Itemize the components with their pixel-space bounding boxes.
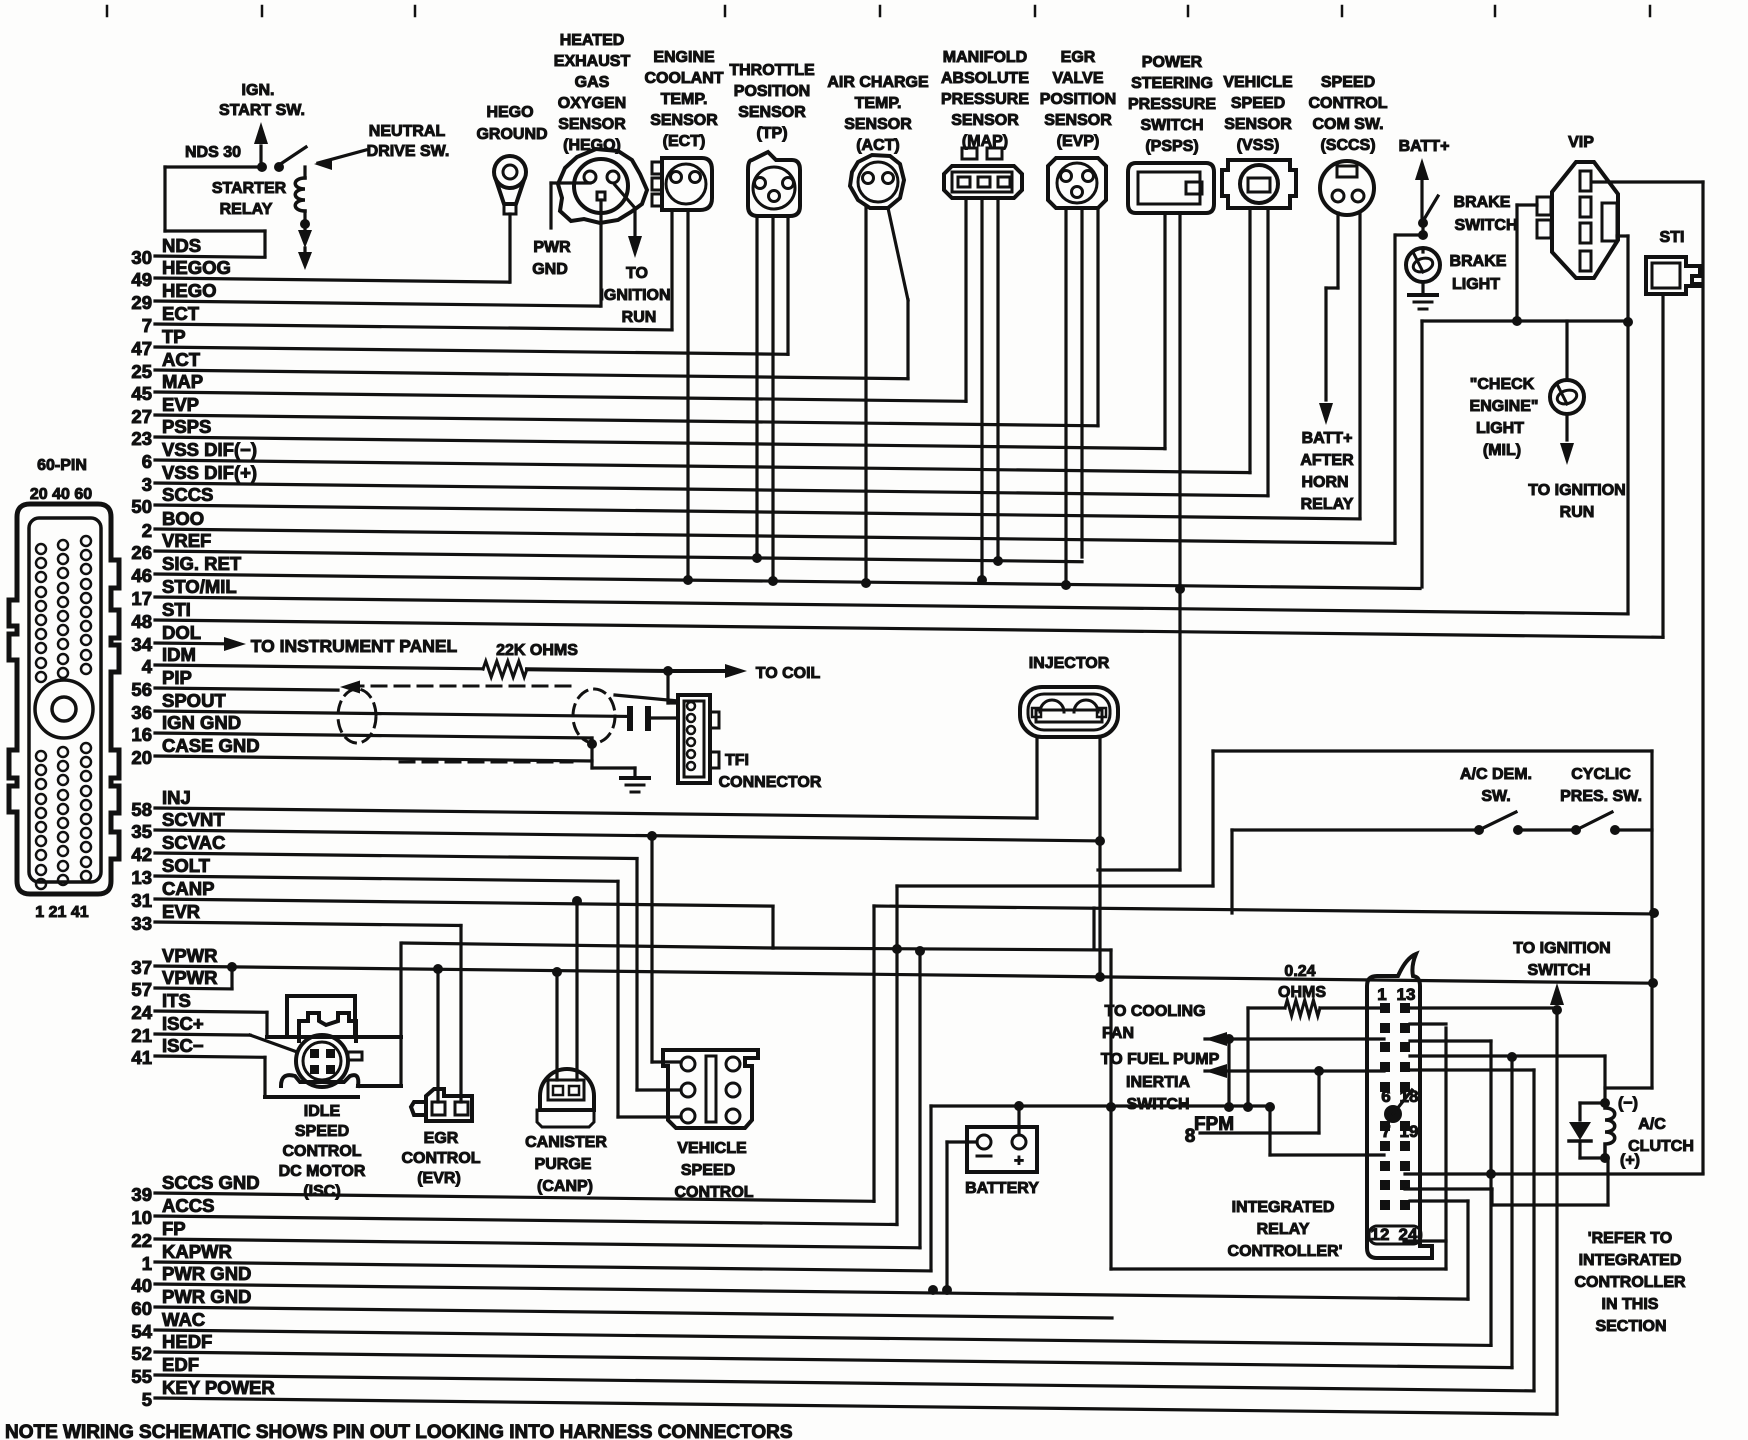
svg-text:SENSOR: SENSOR [1224, 116, 1292, 133]
svg-text:RELAY: RELAY [220, 201, 273, 218]
svg-text:PRESSURE: PRESSURE [1128, 96, 1216, 113]
svg-text:VIP: VIP [1568, 134, 1594, 151]
svg-text:DOL: DOL [162, 622, 201, 643]
svg-text:SOLT: SOLT [162, 855, 211, 876]
svg-text:23: 23 [131, 428, 152, 449]
svg-text:EVP: EVP [162, 394, 199, 415]
svg-text:CONTROL: CONTROL [282, 1143, 361, 1160]
svg-text:58: 58 [131, 799, 152, 820]
svg-text:OHMS: OHMS [1278, 984, 1326, 1001]
svg-text:CONTROLLER: CONTROLLER [1574, 1274, 1686, 1291]
svg-text:SW.: SW. [1481, 788, 1510, 805]
svg-text:40: 40 [131, 1275, 152, 1296]
svg-text:41: 41 [131, 1047, 152, 1068]
svg-text:VPWR: VPWR [162, 967, 218, 988]
svg-text:FAN: FAN [1102, 1025, 1134, 1042]
svg-text:ACT: ACT [162, 349, 201, 370]
svg-text:SENSOR: SENSOR [558, 116, 626, 133]
svg-text:+: + [1014, 1151, 1024, 1170]
svg-text:TO INSTRUMENT PANEL: TO INSTRUMENT PANEL [251, 636, 458, 656]
svg-text:CONTROL: CONTROL [401, 1150, 480, 1167]
svg-text:ECT: ECT [162, 303, 200, 324]
svg-text:RELAY: RELAY [1301, 496, 1354, 513]
svg-text:20 40 60: 20 40 60 [30, 486, 92, 503]
svg-text:CONTROLLER': CONTROLLER' [1228, 1243, 1343, 1260]
svg-text:37: 37 [131, 957, 152, 978]
svg-text:17: 17 [131, 588, 152, 609]
svg-text:HEATED: HEATED [560, 32, 625, 49]
svg-text:4: 4 [142, 656, 153, 677]
svg-text:EVR: EVR [162, 901, 200, 922]
svg-text:(PSPS): (PSPS) [1145, 138, 1198, 155]
svg-text:NDS 30: NDS 30 [185, 144, 241, 161]
svg-text:1: 1 [142, 1253, 152, 1274]
svg-text:STARTER: STARTER [212, 180, 287, 197]
svg-text:FP: FP [162, 1218, 186, 1239]
svg-text:39: 39 [131, 1184, 152, 1205]
svg-text:SPEED: SPEED [1321, 74, 1375, 91]
svg-text:INERTIA: INERTIA [1126, 1074, 1190, 1091]
svg-text:55: 55 [131, 1366, 152, 1387]
svg-text:"CHECK: "CHECK [1470, 376, 1535, 393]
svg-text:PIP: PIP [162, 667, 192, 688]
svg-text:HEDF: HEDF [162, 1331, 212, 1352]
svg-text:60-PIN: 60-PIN [37, 457, 87, 474]
svg-text:SENSOR: SENSOR [1044, 112, 1112, 129]
svg-text:ENGINE: ENGINE [653, 49, 715, 66]
svg-text:INTEGRATED: INTEGRATED [1232, 1199, 1335, 1216]
svg-text:24: 24 [131, 1002, 152, 1023]
svg-text:CONNECTOR: CONNECTOR [719, 774, 822, 791]
svg-text:27: 27 [131, 406, 152, 427]
svg-text:PWR: PWR [533, 239, 571, 256]
svg-text:DRIVE SW.: DRIVE SW. [367, 143, 450, 160]
svg-text:TO: TO [626, 265, 648, 282]
svg-text:(ISC): (ISC) [303, 1183, 340, 1200]
svg-text:7: 7 [142, 315, 152, 336]
svg-text:20: 20 [131, 747, 152, 768]
svg-text:10: 10 [131, 1207, 152, 1228]
svg-text:SIG. RET: SIG. RET [162, 553, 242, 574]
svg-text:A/C DEM.: A/C DEM. [1460, 766, 1532, 783]
svg-text:'REFER TO: 'REFER TO [1588, 1230, 1672, 1247]
svg-text:SPEED: SPEED [295, 1123, 349, 1140]
svg-text:VEHICLE: VEHICLE [1223, 74, 1293, 91]
svg-text:ISC+: ISC+ [162, 1013, 204, 1034]
svg-text:RELAY: RELAY [1257, 1221, 1310, 1238]
svg-text:OXYGEN: OXYGEN [558, 95, 626, 112]
svg-text:SENSOR: SENSOR [650, 112, 718, 129]
svg-text:25: 25 [131, 361, 152, 382]
svg-text:ITS: ITS [162, 990, 191, 1011]
svg-text:COOLANT: COOLANT [644, 70, 723, 87]
svg-text:VSS DIF(−): VSS DIF(−) [162, 439, 257, 460]
svg-text:INJECTOR: INJECTOR [1029, 655, 1110, 672]
svg-text:22: 22 [131, 1230, 152, 1251]
svg-text:TEMP.: TEMP. [661, 91, 708, 108]
svg-text:VREF: VREF [162, 530, 211, 551]
svg-text:EGR: EGR [1061, 49, 1096, 66]
svg-text:PRES. SW.: PRES. SW. [1560, 788, 1642, 805]
svg-text:CANISTER: CANISTER [525, 1134, 607, 1151]
svg-text:(EVR): (EVR) [417, 1170, 461, 1187]
svg-text:PWR GND: PWR GND [162, 1286, 251, 1307]
svg-text:48: 48 [131, 611, 152, 632]
svg-text:START SW.: START SW. [219, 102, 305, 119]
svg-text:56: 56 [131, 679, 152, 700]
svg-text:1 21 41: 1 21 41 [35, 904, 88, 921]
svg-text:GND: GND [532, 261, 568, 278]
svg-text:3: 3 [142, 474, 152, 495]
svg-text:34: 34 [131, 634, 152, 655]
svg-text:COM SW.: COM SW. [1312, 116, 1383, 133]
svg-text:SCVNT: SCVNT [162, 809, 225, 830]
svg-text:BATT+: BATT+ [1399, 138, 1450, 155]
svg-text:(SCCS): (SCCS) [1320, 137, 1375, 154]
svg-text:30: 30 [131, 247, 152, 268]
svg-text:IGNITION: IGNITION [599, 287, 670, 304]
svg-text:2: 2 [142, 520, 152, 541]
svg-text:6: 6 [1381, 1087, 1390, 1106]
svg-text:HEGOG: HEGOG [162, 257, 231, 278]
svg-text:57: 57 [131, 979, 152, 1000]
svg-text:TO IGNITION: TO IGNITION [1528, 482, 1625, 499]
svg-text:BATTERY: BATTERY [965, 1180, 1039, 1197]
svg-text:ENGINE": ENGINE" [1470, 398, 1539, 415]
svg-text:LIGHT: LIGHT [1476, 420, 1524, 437]
svg-text:TFI: TFI [725, 752, 749, 769]
svg-text:SENSOR: SENSOR [844, 116, 912, 133]
svg-text:GAS: GAS [575, 74, 610, 91]
svg-text:60: 60 [131, 1298, 152, 1319]
svg-text:SPEED: SPEED [681, 1162, 735, 1179]
svg-text:POSITION: POSITION [734, 83, 810, 100]
svg-text:KEY POWER: KEY POWER [162, 1377, 275, 1398]
svg-text:IDLE: IDLE [304, 1103, 341, 1120]
svg-text:ABSOLUTE: ABSOLUTE [941, 70, 1029, 87]
svg-text:INTEGRATED: INTEGRATED [1579, 1252, 1682, 1269]
svg-text:16: 16 [131, 724, 152, 745]
svg-text:IGN.: IGN. [242, 82, 275, 99]
svg-text:PWR GND: PWR GND [162, 1263, 251, 1284]
svg-text:TO FUEL PUMP: TO FUEL PUMP [1101, 1051, 1220, 1068]
svg-text:(TP): (TP) [756, 125, 787, 142]
svg-text:SWITCH: SWITCH [1454, 217, 1517, 234]
svg-text:AIR CHARGE: AIR CHARGE [827, 74, 929, 91]
svg-text:RUN: RUN [1560, 504, 1595, 521]
svg-text:IDM: IDM [162, 644, 196, 665]
svg-text:19: 19 [1400, 1122, 1419, 1141]
svg-text:49: 49 [131, 269, 152, 290]
svg-text:(EVP): (EVP) [1057, 133, 1100, 150]
svg-text:5: 5 [142, 1389, 152, 1410]
svg-text:TP: TP [162, 326, 186, 347]
svg-text:CLUTCH: CLUTCH [1628, 1138, 1694, 1155]
svg-text:HEGO: HEGO [486, 104, 533, 121]
svg-text:(CANP): (CANP) [537, 1178, 593, 1195]
svg-text:POWER: POWER [1142, 54, 1203, 71]
svg-text:24: 24 [1399, 1225, 1418, 1244]
svg-text:IN THIS: IN THIS [1602, 1296, 1659, 1313]
svg-text:PRESSURE: PRESSURE [941, 91, 1029, 108]
svg-text:EGR: EGR [424, 1130, 459, 1147]
svg-text:BRAKE: BRAKE [1450, 253, 1507, 270]
svg-text:SPEED: SPEED [1231, 95, 1285, 112]
svg-text:A/C: A/C [1638, 1116, 1666, 1133]
svg-text:47: 47 [131, 338, 152, 359]
svg-text:NOTE WIRING SCHEMATIC SHOWS P: NOTE WIRING SCHEMATIC SHOWS PIN OUT LOOK… [5, 1422, 793, 1440]
svg-text:BOO: BOO [162, 508, 204, 529]
svg-text:TO COIL: TO COIL [756, 665, 821, 682]
svg-text:35: 35 [131, 821, 152, 842]
svg-text:MANIFOLD: MANIFOLD [943, 49, 1027, 66]
svg-text:(ACT): (ACT) [856, 137, 900, 154]
svg-text:TO COOLING: TO COOLING [1104, 1003, 1205, 1020]
svg-text:KAPWR: KAPWR [162, 1241, 232, 1262]
svg-text:SWITCH: SWITCH [1140, 117, 1203, 134]
svg-text:6: 6 [142, 451, 152, 472]
svg-text:TEMP.: TEMP. [855, 95, 902, 112]
svg-text:46: 46 [131, 565, 152, 586]
svg-text:(VSS): (VSS) [1237, 137, 1280, 154]
svg-text:BRAKE: BRAKE [1454, 194, 1511, 211]
svg-text:INJ: INJ [162, 787, 191, 808]
svg-text:45: 45 [131, 383, 152, 404]
svg-text:PSPS: PSPS [162, 416, 211, 437]
svg-text:SCVAC: SCVAC [162, 832, 225, 853]
svg-text:SCCS: SCCS [162, 484, 213, 505]
svg-text:(ECT): (ECT) [663, 133, 706, 150]
svg-text:ISC−: ISC− [162, 1035, 204, 1056]
svg-text:EDF: EDF [162, 1354, 199, 1375]
svg-text:CASE GND: CASE GND [162, 735, 260, 756]
svg-text:36: 36 [131, 702, 152, 723]
svg-text:1: 1 [1377, 985, 1386, 1004]
svg-text:SENSOR: SENSOR [951, 112, 1019, 129]
svg-text:IGN GND: IGN GND [162, 712, 241, 733]
svg-text:SWITCH: SWITCH [1126, 1096, 1189, 1113]
svg-text:DC MOTOR: DC MOTOR [279, 1163, 366, 1180]
svg-text:SECTION: SECTION [1595, 1318, 1666, 1335]
svg-text:54: 54 [131, 1321, 152, 1342]
svg-text:VSS DIF(+): VSS DIF(+) [162, 462, 257, 483]
svg-text:STEERING: STEERING [1131, 75, 1213, 92]
svg-text:13: 13 [131, 867, 152, 888]
svg-text:SENSOR: SENSOR [738, 104, 806, 121]
svg-text:7: 7 [1381, 1122, 1390, 1141]
svg-text:TO IGNITION: TO IGNITION [1513, 940, 1610, 957]
svg-text:22K OHMS: 22K OHMS [496, 642, 578, 659]
svg-text:CYCLIC: CYCLIC [1571, 766, 1631, 783]
svg-text:21: 21 [131, 1025, 152, 1046]
svg-text:PURGE: PURGE [535, 1156, 592, 1173]
svg-text:13: 13 [1397, 985, 1416, 1004]
svg-text:NDS: NDS [162, 235, 201, 256]
svg-text:POSITION: POSITION [1040, 91, 1116, 108]
svg-text:AFTER: AFTER [1300, 452, 1354, 469]
svg-text:NEUTRAL: NEUTRAL [369, 123, 446, 140]
svg-text:WAC: WAC [162, 1309, 205, 1330]
svg-text:0.24: 0.24 [1284, 963, 1315, 980]
svg-text:ACCS: ACCS [162, 1195, 214, 1216]
svg-text:SWITCH: SWITCH [1527, 962, 1590, 979]
svg-text:26: 26 [131, 542, 152, 563]
svg-text:29: 29 [131, 292, 152, 313]
svg-text:EXHAUST: EXHAUST [554, 53, 631, 70]
svg-text:50: 50 [131, 496, 152, 517]
svg-text:CONTROL: CONTROL [1308, 95, 1387, 112]
svg-text:STI: STI [162, 599, 191, 620]
svg-text:HEGO: HEGO [162, 280, 216, 301]
svg-text:8: 8 [1185, 1126, 1196, 1147]
svg-text:STO/MIL: STO/MIL [162, 576, 237, 597]
svg-text:THROTTLE: THROTTLE [729, 62, 815, 79]
svg-text:SPOUT: SPOUT [162, 690, 226, 711]
svg-text:STI: STI [1660, 229, 1685, 246]
svg-text:VEHICLE: VEHICLE [677, 1140, 747, 1157]
svg-text:BATT+: BATT+ [1302, 430, 1353, 447]
svg-text:CANP: CANP [162, 878, 214, 899]
svg-text:VALVE: VALVE [1053, 70, 1104, 87]
svg-text:LIGHT: LIGHT [1452, 276, 1500, 293]
svg-text:VPWR: VPWR [162, 945, 218, 966]
svg-text:GROUND: GROUND [476, 126, 547, 143]
svg-text:31: 31 [131, 890, 152, 911]
svg-text:HORN: HORN [1301, 474, 1348, 491]
svg-text:RUN: RUN [622, 309, 657, 326]
svg-text:(−): (−) [1618, 1095, 1638, 1112]
svg-text:(MIL): (MIL) [1483, 442, 1521, 459]
svg-text:33: 33 [131, 913, 152, 934]
svg-text:MAP: MAP [162, 371, 203, 392]
svg-text:CONTROL: CONTROL [674, 1184, 753, 1201]
svg-text:SCCS GND: SCCS GND [162, 1172, 260, 1193]
svg-text:52: 52 [131, 1343, 152, 1364]
svg-text:42: 42 [131, 844, 152, 865]
